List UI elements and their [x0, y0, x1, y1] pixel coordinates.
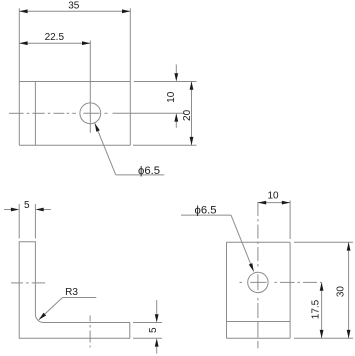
svg-text:ϕ6.5: ϕ6.5 [195, 205, 217, 217]
svg-text:22.5: 22.5 [45, 32, 65, 43]
svg-text:30: 30 [336, 286, 347, 298]
svg-text:17.5: 17.5 [311, 299, 322, 319]
svg-text:R3: R3 [65, 287, 78, 298]
svg-text:10: 10 [166, 91, 177, 103]
svg-text:10: 10 [267, 190, 279, 201]
svg-text:ϕ6.5: ϕ6.5 [138, 165, 160, 177]
svg-text:20: 20 [182, 109, 193, 121]
svg-text:5: 5 [148, 327, 159, 333]
svg-text:35: 35 [68, 1, 80, 12]
svg-text:5: 5 [24, 200, 30, 211]
